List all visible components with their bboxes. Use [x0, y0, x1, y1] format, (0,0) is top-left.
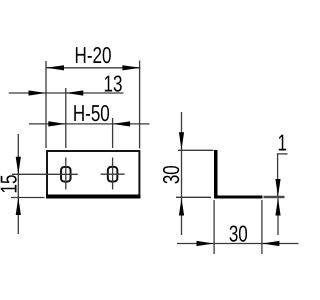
svg-text:30: 30	[158, 165, 184, 184]
svg-text:15: 15	[0, 175, 22, 194]
svg-text:H-50: H-50	[73, 100, 110, 126]
svg-text:1: 1	[277, 130, 286, 156]
svg-text:H-20: H-20	[75, 42, 112, 68]
svg-text:30: 30	[229, 220, 248, 246]
svg-text:13: 13	[104, 70, 123, 96]
